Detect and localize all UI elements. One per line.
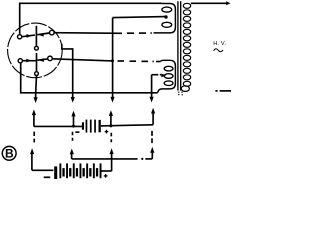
svg-text:B: B — [5, 147, 14, 161]
svg-text:H. V.: H. V. — [213, 41, 226, 47]
